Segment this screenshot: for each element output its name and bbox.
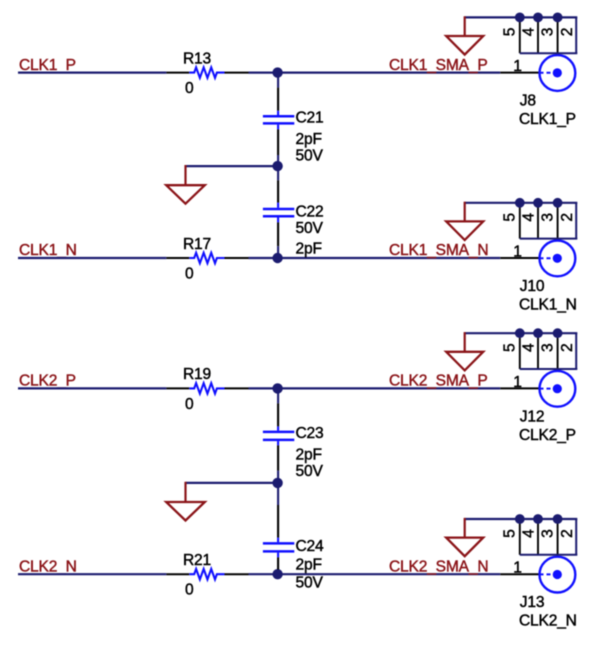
svg-text:J8: J8 bbox=[520, 93, 536, 110]
svg-text:CLK1_SMA_N: CLK1_SMA_N bbox=[389, 242, 488, 259]
svg-text:R19: R19 bbox=[183, 366, 211, 383]
svg-text:3: 3 bbox=[540, 529, 557, 537]
svg-text:C21: C21 bbox=[296, 109, 324, 126]
svg-text:1: 1 bbox=[513, 244, 521, 261]
svg-text:5: 5 bbox=[502, 343, 519, 352]
svg-text:5: 5 bbox=[502, 529, 519, 538]
svg-text:C23: C23 bbox=[296, 425, 324, 442]
svg-text:CLK2_SMA_N: CLK2_SMA_N bbox=[389, 558, 488, 575]
svg-text:0: 0 bbox=[185, 265, 194, 282]
svg-text:4: 4 bbox=[520, 529, 537, 538]
svg-text:CLK1_SMA_P: CLK1_SMA_P bbox=[389, 57, 488, 74]
svg-text:R13: R13 bbox=[183, 50, 211, 67]
svg-text:1: 1 bbox=[513, 560, 521, 577]
svg-text:J12: J12 bbox=[520, 408, 545, 425]
svg-text:3: 3 bbox=[540, 213, 557, 221]
svg-text:50V: 50V bbox=[296, 463, 324, 480]
svg-text:CLK2_P: CLK2_P bbox=[19, 373, 76, 390]
svg-text:C24: C24 bbox=[296, 538, 325, 555]
svg-text:4: 4 bbox=[520, 213, 537, 222]
svg-text:4: 4 bbox=[520, 27, 537, 36]
svg-text:50V: 50V bbox=[296, 148, 324, 165]
svg-text:CLK2_P: CLK2_P bbox=[519, 427, 576, 444]
svg-text:J13: J13 bbox=[520, 594, 545, 611]
svg-text:1: 1 bbox=[513, 58, 521, 75]
svg-text:5: 5 bbox=[502, 213, 519, 222]
svg-text:3: 3 bbox=[540, 28, 557, 36]
svg-text:2pF: 2pF bbox=[296, 240, 322, 257]
svg-text:CLK2_N: CLK2_N bbox=[519, 613, 577, 630]
svg-text:0: 0 bbox=[185, 582, 194, 599]
svg-text:0: 0 bbox=[185, 80, 194, 97]
svg-text:CLK1_P: CLK1_P bbox=[19, 57, 76, 74]
svg-text:4: 4 bbox=[520, 343, 537, 352]
svg-text:50V: 50V bbox=[296, 575, 324, 592]
svg-text:CLK1_N: CLK1_N bbox=[19, 242, 77, 259]
svg-text:1: 1 bbox=[513, 374, 521, 391]
svg-text:0: 0 bbox=[185, 396, 194, 413]
svg-text:2: 2 bbox=[559, 529, 576, 537]
svg-text:2: 2 bbox=[559, 28, 576, 36]
svg-text:2pF: 2pF bbox=[296, 557, 322, 574]
svg-text:2pF: 2pF bbox=[296, 131, 322, 148]
svg-text:2: 2 bbox=[559, 213, 576, 221]
svg-text:CLK1_N: CLK1_N bbox=[519, 297, 577, 314]
svg-text:50V: 50V bbox=[296, 220, 324, 237]
svg-text:2: 2 bbox=[559, 344, 576, 352]
svg-text:C22: C22 bbox=[296, 204, 324, 221]
svg-text:5: 5 bbox=[502, 27, 519, 36]
svg-text:CLK1_P: CLK1_P bbox=[519, 111, 576, 128]
svg-text:3: 3 bbox=[540, 344, 557, 352]
svg-text:R21: R21 bbox=[183, 552, 211, 569]
svg-text:2pF: 2pF bbox=[296, 447, 322, 464]
svg-text:CLK2_N: CLK2_N bbox=[19, 558, 77, 575]
svg-text:R17: R17 bbox=[183, 236, 211, 253]
svg-text:CLK2_SMA_P: CLK2_SMA_P bbox=[389, 373, 488, 390]
svg-text:J10: J10 bbox=[520, 278, 545, 295]
